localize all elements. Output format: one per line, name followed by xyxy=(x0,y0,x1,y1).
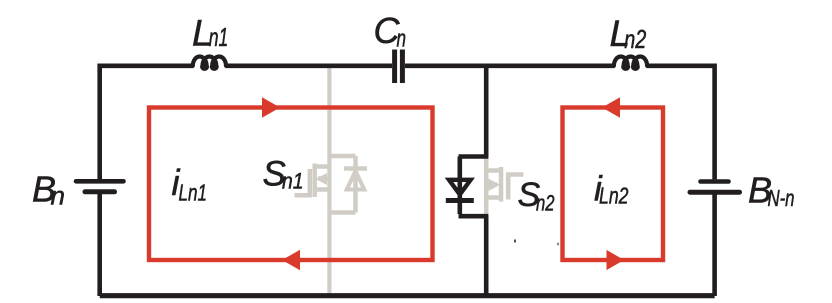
arrow iLn2 bottom (right) xyxy=(607,250,625,270)
svg-text:n: n xyxy=(51,180,65,210)
svg-text:n2: n2 xyxy=(624,24,646,54)
arrow iLn1 bottom (left) xyxy=(282,250,300,270)
battery Bn plates xyxy=(76,181,124,192)
wire middle branch bottom xyxy=(484,216,489,296)
transistor S2 channel (gray, off) group xyxy=(486,158,523,216)
diode D2 cathode bar xyxy=(446,198,474,203)
diode body-diode of Sn1 stem xyxy=(353,156,358,213)
wire right side top xyxy=(712,64,717,180)
transistor Sn1 bottom stub xyxy=(315,187,330,192)
svg-text:n: n xyxy=(397,26,407,53)
speck 1 xyxy=(514,240,516,243)
wire top middle segment xyxy=(226,64,393,69)
wire Sn2 top bar xyxy=(459,154,489,159)
diode body-diode of Sn1 cathode bar xyxy=(344,166,367,171)
wire left side top xyxy=(97,64,102,180)
battery BN-n plates xyxy=(690,182,740,193)
inductor Ln1 coil xyxy=(193,57,226,69)
current loop iLn1 xyxy=(149,108,433,261)
current loop iLn2 xyxy=(563,108,664,261)
wire left side bottom xyxy=(97,194,102,296)
transistor Sn1 channel bar xyxy=(312,164,317,198)
transistor S1 (gray, off) group xyxy=(295,64,368,296)
svg-text:n2: n2 xyxy=(536,190,555,215)
black circuit wires xyxy=(100,57,715,297)
wire bottom xyxy=(100,293,715,298)
wire middle branch top xyxy=(484,64,489,157)
capacitor Cn plates xyxy=(395,50,403,84)
wire right side bottom xyxy=(712,194,717,296)
transistor Sn2 source arrow head xyxy=(489,179,501,191)
arrow iLn2 top (left) xyxy=(602,97,620,117)
svg-text:n1: n1 xyxy=(209,22,229,52)
svg-text:Ln2: Ln2 xyxy=(599,183,629,209)
transistor Sn1 top stub xyxy=(315,164,330,169)
diode D2 stem xyxy=(457,157,462,215)
transistor Sn2 bottom stub xyxy=(488,195,502,200)
arrow iLn1 top (right) xyxy=(262,97,280,117)
speck 2 xyxy=(557,243,559,246)
transistor Sn1 source arrow stub xyxy=(318,176,329,181)
wire gray vertical branch of Sn1 xyxy=(327,64,331,296)
wire top right of capacitor xyxy=(405,64,615,69)
diode body-diode of Sn1 triangle xyxy=(347,171,365,190)
transistor Sn2 top stub xyxy=(488,168,502,173)
transistor Sn2 gate bar and lead xyxy=(508,175,523,200)
transistor Sn1 gate bar and lead xyxy=(295,169,310,195)
wire Sn1 bottom bar to body diode xyxy=(329,210,355,215)
svg-text:N-n: N-n xyxy=(768,185,795,211)
svg-text:n1: n1 xyxy=(282,169,304,194)
transistor Sn2 channel bar xyxy=(499,167,504,202)
wire gray channel segment of Sn2 xyxy=(484,158,489,216)
wire top left segment xyxy=(100,64,194,69)
inductor Ln2 coil xyxy=(614,57,647,69)
transistor Sn2 source arrow stub xyxy=(487,182,497,187)
diode D2 triangle xyxy=(449,180,471,195)
wire Sn1 top bar to body diode xyxy=(329,154,355,159)
transistor Sn1 source arrow head xyxy=(316,173,328,185)
svg-text:Ln1: Ln1 xyxy=(179,179,208,205)
wire Sn2 bottom bar xyxy=(459,214,489,219)
wire top far right segment xyxy=(646,64,714,69)
